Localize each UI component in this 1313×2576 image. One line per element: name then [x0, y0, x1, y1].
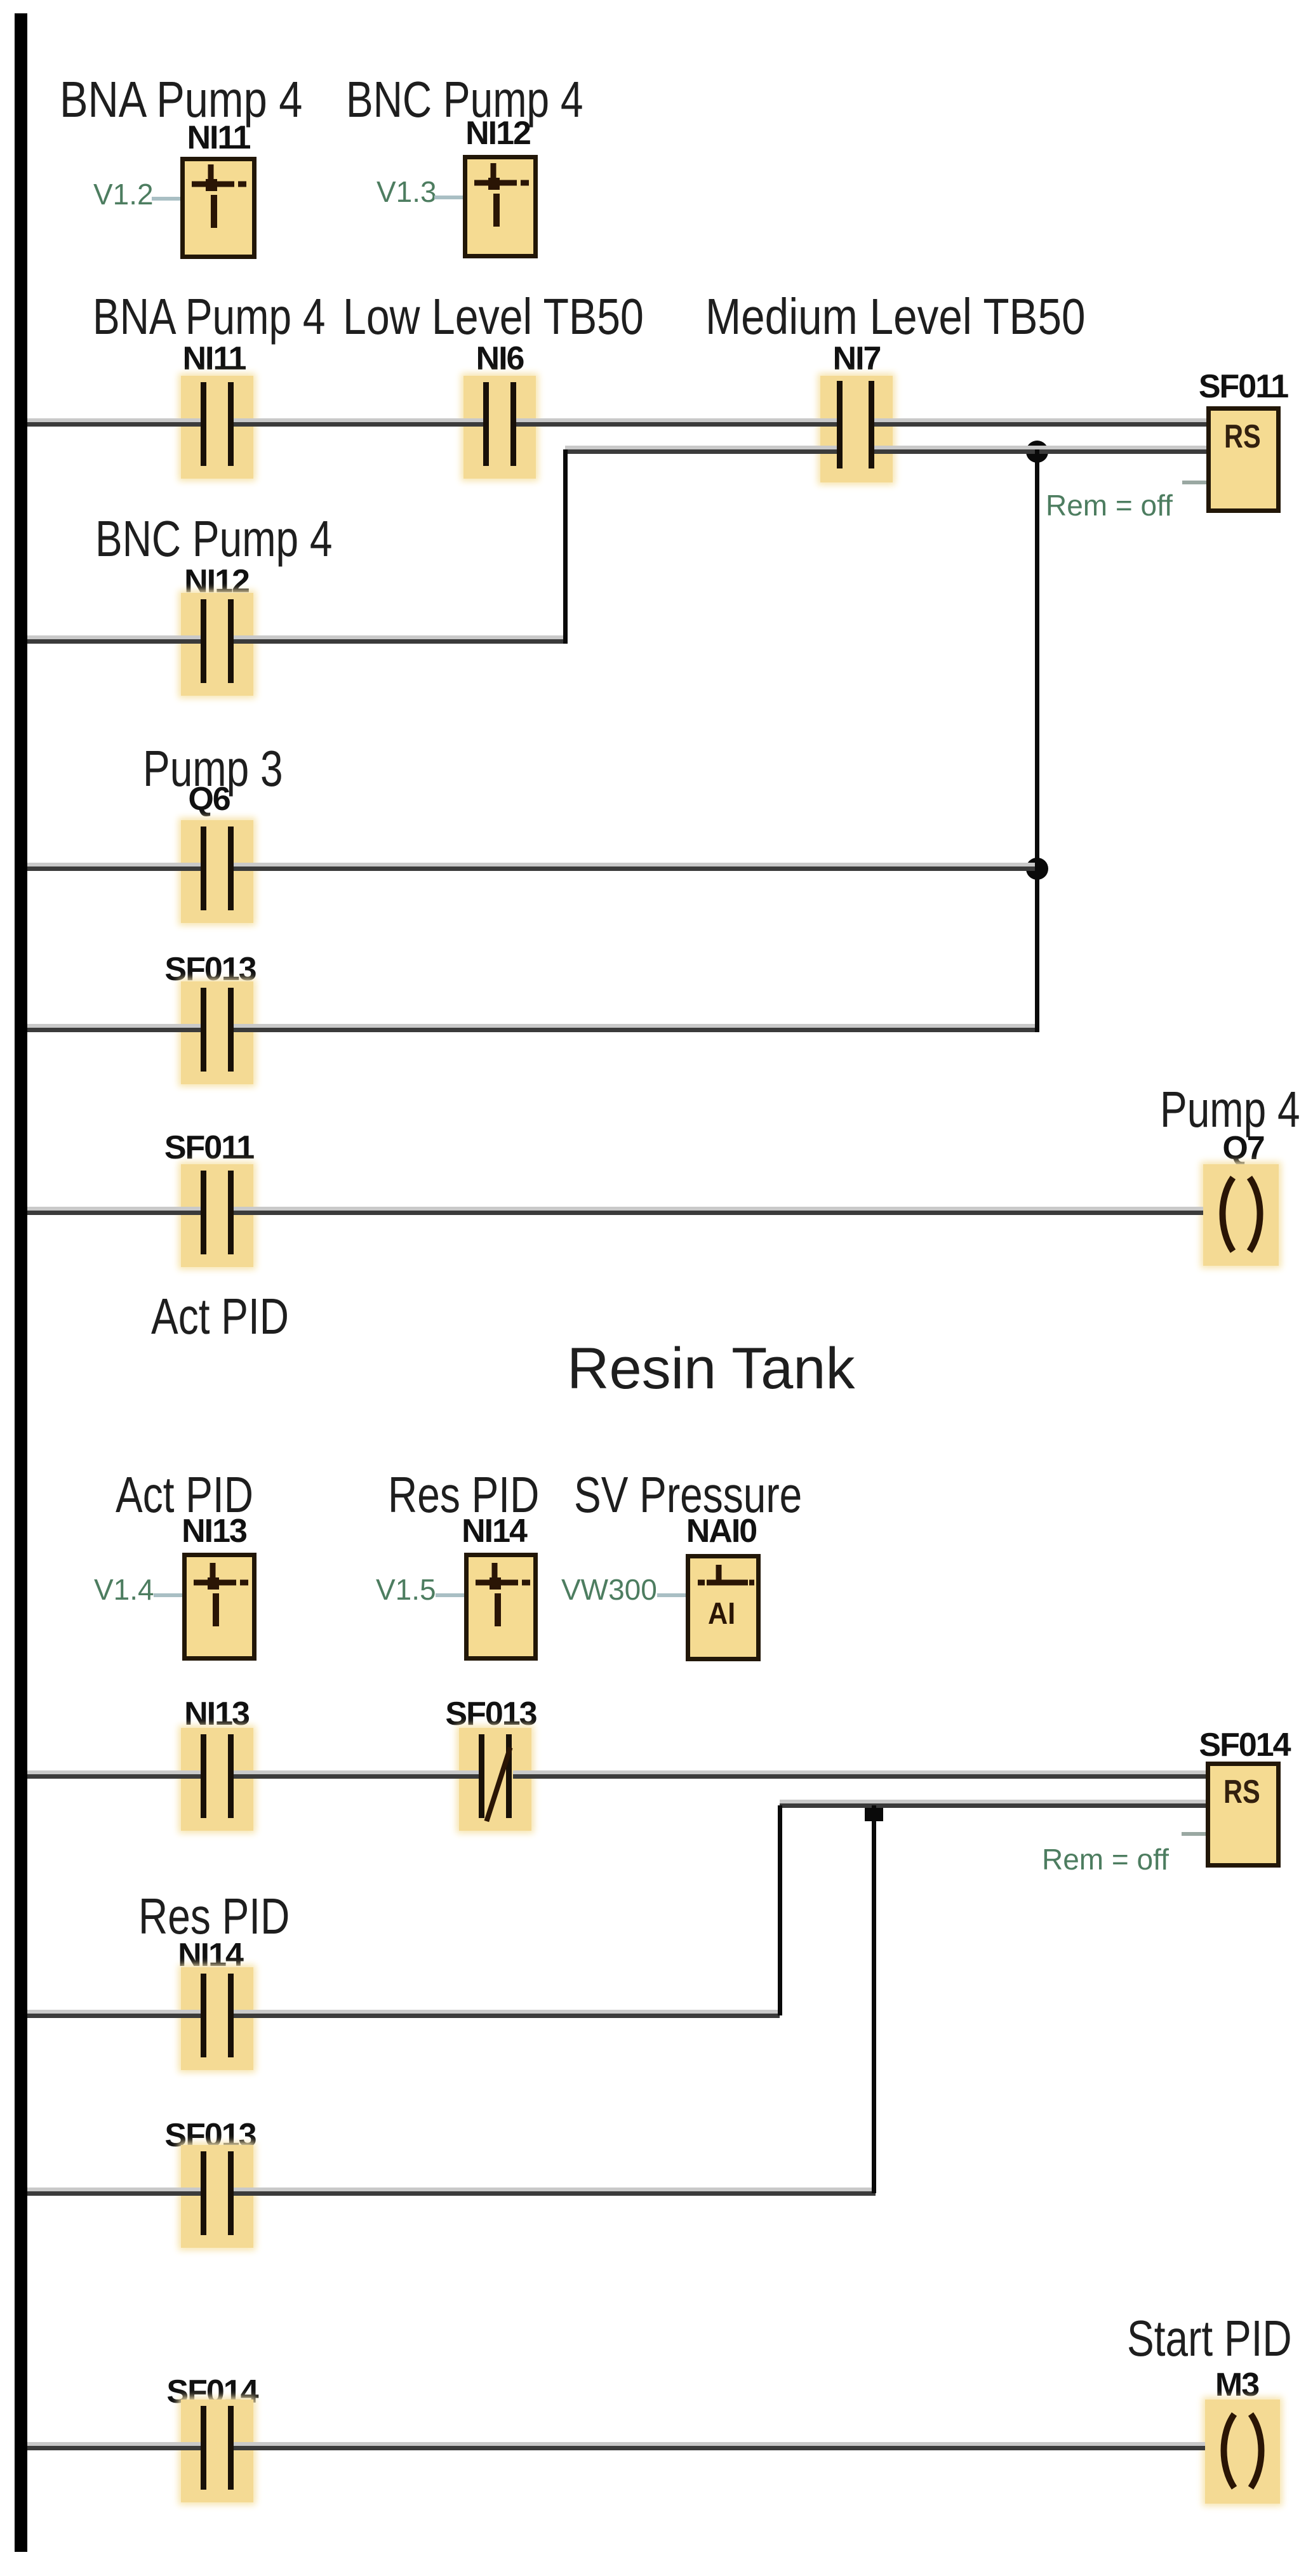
svg-text:AI: AI: [708, 1597, 735, 1631]
